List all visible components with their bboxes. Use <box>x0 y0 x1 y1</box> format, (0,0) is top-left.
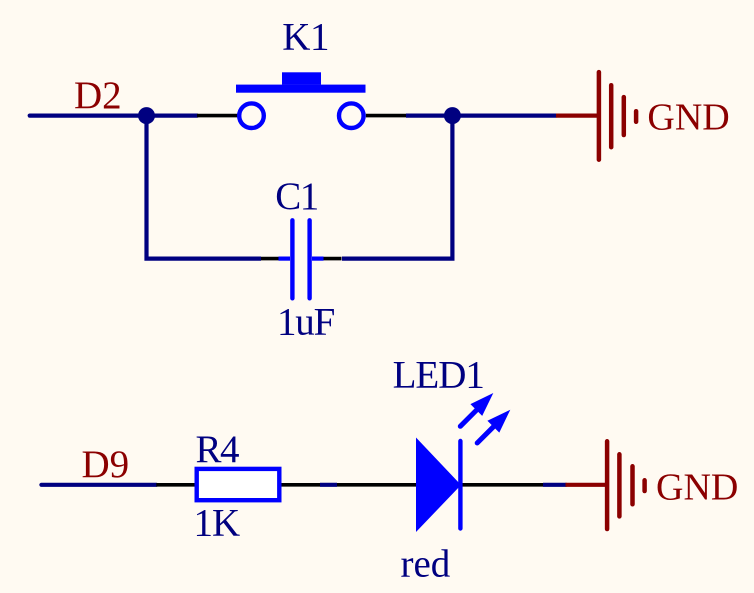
resistor R4 <box>197 469 280 500</box>
svg-text:GND: GND <box>656 467 738 509</box>
svg-text:K1: K1 <box>282 15 329 58</box>
pin 2 of K1 (black) <box>366 114 406 118</box>
svg-text:GND: GND <box>647 97 729 139</box>
wire: left vertical + capacitor branch left horizontal <box>147 116 262 259</box>
wire: bottom-left net D9 horizontal <box>41 483 156 487</box>
ground symbol top (GND) <box>556 72 636 160</box>
wire: top-left net D2 horizontal <box>30 113 197 117</box>
pin 1 of K1 (black) <box>197 114 238 118</box>
pin 1 of R4 (black) <box>156 483 196 487</box>
svg-text:D9: D9 <box>82 443 130 486</box>
svg-text:1uF: 1uF <box>277 300 335 343</box>
node B: junction dot right <box>444 107 461 124</box>
wire: top-right horizontal to GND <box>406 113 556 117</box>
capacitor C1 <box>279 220 324 298</box>
svg-text:LED1: LED1 <box>393 354 484 397</box>
pin 2 of C1 (black) <box>323 257 342 261</box>
wire: capacitor branch right horizontal + right vertical <box>342 116 452 259</box>
pin 1 of LED1 (black) <box>337 483 417 487</box>
pushbutton K1 <box>236 72 366 128</box>
ground symbol bottom (GND) <box>566 441 645 529</box>
LED LED1 <box>416 393 510 532</box>
svg-text:red: red <box>401 543 451 586</box>
pin 1 of C1 (black) <box>261 257 279 261</box>
svg-text:R4: R4 <box>196 428 240 471</box>
pin 2 of LED1 (black) <box>461 483 543 487</box>
svg-text:D2: D2 <box>74 74 122 117</box>
svg-text:C1: C1 <box>275 175 318 218</box>
svg-text:1K: 1K <box>194 501 241 544</box>
wire: between R4 and LED1 <box>320 483 337 487</box>
pin 2 of R4 (black) <box>280 483 320 487</box>
node A: junction dot left <box>138 107 155 124</box>
wire: LED1 to GND <box>543 483 567 487</box>
